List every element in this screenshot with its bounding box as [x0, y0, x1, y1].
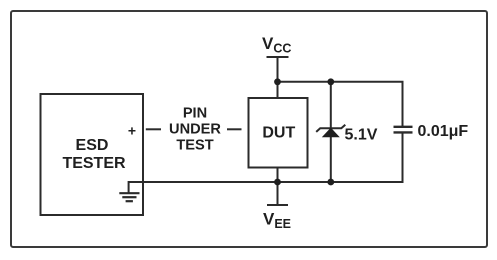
junction dot VCC rail — [274, 78, 281, 85]
svg-text:VCC: VCC — [262, 34, 291, 56]
wire pin-under-test right stub — [227, 128, 242, 130]
ground symbol bar3 — [126, 200, 133, 202]
wire VCC stem to DUT top — [277, 57, 279, 98]
junction dot zener top — [327, 78, 334, 85]
svg-text:0.01μF: 0.01μF — [418, 123, 469, 140]
VEE supply bar — [267, 204, 288, 206]
svg-text:VEE: VEE — [263, 210, 291, 232]
wire zener bottom stem — [330, 137, 332, 182]
svg-text:ESD: ESD — [76, 137, 109, 154]
junction dot VEE rail — [274, 179, 281, 186]
svg-text:5.1V: 5.1V — [345, 126, 378, 143]
svg-text:UNDER: UNDER — [169, 122, 221, 138]
svg-text:+: + — [128, 122, 136, 138]
wire bottom rail — [129, 133, 403, 193]
DUT box U1 — [249, 98, 308, 168]
capacitor C1 top plate — [394, 126, 413, 128]
zener D1 triangle — [322, 128, 340, 138]
VCC supply bar — [267, 56, 289, 58]
ground symbol bar2 — [122, 196, 136, 198]
wire DUT bottom to VEE — [277, 168, 279, 206]
svg-text:DUT: DUT — [262, 124, 295, 141]
wire pin-under-test left stub — [146, 128, 161, 130]
capacitor C1 bottom plate — [394, 131, 413, 133]
svg-text:PIN: PIN — [183, 106, 207, 122]
junction dot zener bottom — [327, 179, 334, 186]
wire top rail — [278, 82, 403, 127]
zener D1 cathode bar — [316, 125, 345, 132]
ESD tester box — [41, 94, 144, 215]
wire zener top stem — [330, 82, 332, 129]
svg-text:TESTER: TESTER — [62, 155, 126, 172]
svg-text:TEST: TEST — [176, 138, 213, 154]
ground symbol bar1 — [119, 192, 139, 194]
